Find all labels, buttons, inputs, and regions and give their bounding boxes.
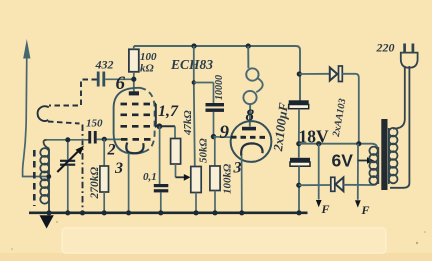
heptode cathode bbox=[126, 143, 143, 154]
svg-text:ECH83: ECH83 bbox=[170, 57, 213, 72]
wire: dash-dot drop to ground bus bbox=[82, 125, 84, 211]
triode anode plate bbox=[242, 127, 256, 131]
terminal F (filament lead 2, arrow) bbox=[357, 144, 359, 200]
triode grid (dashed) bbox=[231, 136, 269, 139]
svg-text:18V: 18V bbox=[299, 126, 330, 146]
transformer T1 bbox=[369, 147, 378, 185]
svg-text:10000: 10000 bbox=[214, 75, 225, 100]
wire: 18V rail with nodes and label bbox=[299, 143, 372, 145]
heptode grids g1-g4 (dashed) bbox=[121, 104, 157, 139]
svg-text:150: 150 bbox=[86, 118, 103, 130]
nodes: ground bus junctions bbox=[46, 210, 301, 215]
wire: dashed antenna coupling link from capacitor 432 bbox=[38, 80, 97, 211]
svg-text:2: 2 bbox=[107, 142, 116, 159]
paper specks bbox=[11, 221, 426, 250]
potentiometer 50kΩ bbox=[191, 167, 201, 213]
wire: +B top bus with corner to right rail bbox=[134, 46, 300, 101]
wire: mains cord pair bbox=[393, 66, 405, 129]
wire: vertical from +B bus down to 50kΩ bbox=[193, 46, 195, 83]
resistor 270kΩ bbox=[100, 139, 109, 212]
diode D1 (AA103, upper) bbox=[299, 66, 359, 144]
svg-text:F: F bbox=[321, 202, 330, 216]
svg-text:47kΩ: 47kΩ bbox=[182, 110, 194, 137]
mains plug 220V with label bbox=[401, 44, 418, 68]
coupling loop (single turn) bbox=[38, 106, 49, 121]
potentiometer wiper arrow onto 50kΩ bbox=[176, 164, 191, 181]
capacitors 2x100µF (electrolytic filter pair) bbox=[289, 100, 310, 213]
T1 core bbox=[381, 119, 387, 190]
capacitor 10000 (grid coupling) bbox=[194, 83, 224, 137]
L1 core (dashed) bbox=[33, 150, 36, 206]
tube U1a heptode envelope bbox=[114, 88, 146, 154]
T1 secondary winding bbox=[377, 147, 379, 184]
wire: ground bus bbox=[29, 212, 308, 215]
node: pin 6 (heptode anode) with label bbox=[131, 77, 136, 82]
T1 primary winding 220V bbox=[388, 128, 390, 184]
svg-text:270kΩ: 270kΩ bbox=[89, 167, 101, 200]
svg-text:3: 3 bbox=[233, 160, 242, 177]
capacitor 0,1 bbox=[154, 126, 169, 212]
headphone jack loops in anode lead, pin 8 bbox=[243, 46, 262, 127]
terminal F (filament lead 1, arrow) bbox=[318, 144, 320, 200]
wire: grid tie bracket to pins 1,7 bbox=[155, 104, 157, 127]
heptode anode plate bbox=[129, 91, 139, 95]
tube U1b triode envelope bbox=[231, 121, 272, 162]
wire: tuned circuit to heptode grid pin 2 bbox=[46, 139, 89, 141]
capacitor 150 (series grid coupling) bbox=[88, 131, 96, 144]
node: pin 9 (triode grid) with wire and label bbox=[211, 134, 216, 139]
node: junction of C1 branch / junction of 270k branch bbox=[65, 137, 70, 142]
svg-text:220: 220 bbox=[376, 41, 395, 55]
svg-text:0,1: 0,1 bbox=[143, 171, 157, 183]
svg-text:1,7: 1,7 bbox=[158, 103, 179, 120]
node: junction grid wire / 0,1 capacitor bbox=[157, 123, 163, 129]
antenna A1 (arrow symbol) bbox=[23, 52, 47, 177]
svg-text:6V: 6V bbox=[332, 151, 354, 171]
svg-text:3: 3 bbox=[114, 160, 123, 177]
node: L1 antenna tap junction bbox=[46, 174, 51, 179]
triode cathode with lead to ground bus bbox=[241, 143, 262, 155]
capacitor 432 bbox=[97, 72, 134, 87]
resistor 100kΩ (grid leak) bbox=[210, 137, 220, 212]
variable capacitor C1 (tuning, arrow symbol) bbox=[57, 140, 84, 212]
ground symbol (chassis arrow) bbox=[40, 215, 54, 228]
svg-text:432: 432 bbox=[95, 58, 114, 72]
wire: heptode cathode pin 3 to ground bus bbox=[128, 153, 130, 212]
inductor L1 (tuning coil) bbox=[40, 140, 49, 212]
svg-text:100kΩ: 100kΩ bbox=[222, 163, 234, 194]
svg-text:F: F bbox=[361, 203, 370, 217]
resistor 47kΩ bbox=[171, 126, 181, 164]
resistor 100kΩ (heptode anode load) bbox=[129, 46, 139, 92]
svg-text:9: 9 bbox=[220, 122, 230, 143]
svg-text:kΩ: kΩ bbox=[140, 63, 155, 75]
svg-text:50kΩ: 50kΩ bbox=[198, 138, 210, 164]
diode D2 (AA103, lower) bbox=[299, 177, 378, 191]
caption box bbox=[62, 228, 386, 253]
6V winding tap arrow and label bbox=[358, 160, 368, 162]
svg-text:100: 100 bbox=[140, 51, 157, 63]
